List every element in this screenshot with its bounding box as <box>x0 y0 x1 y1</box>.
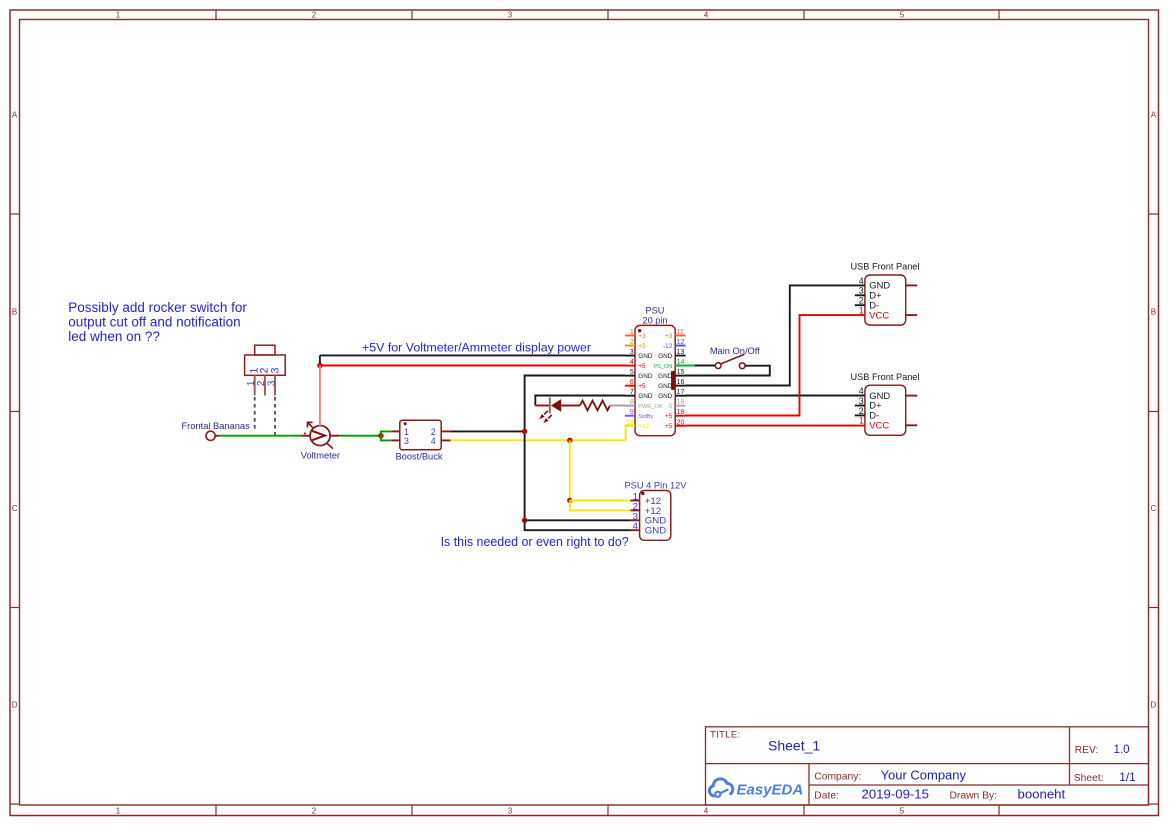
connector J1 pin numbers 1 2 3 <box>246 380 277 386</box>
svg-text:VCC: VCC <box>869 420 889 431</box>
svg-text:PSU: PSU <box>646 305 665 315</box>
wire yellow to 4pin pin2 <box>570 501 631 511</box>
P1 pin 4 +5 <box>625 359 646 370</box>
svg-text:booneht: booneht <box>1018 786 1066 801</box>
svg-text:C: C <box>12 504 18 513</box>
svg-text:9: 9 <box>630 409 634 416</box>
wire voltmeter supply (salmon) <box>319 366 321 426</box>
svg-text:TITLE:: TITLE: <box>710 730 741 741</box>
wire PSU pin17 GND to USB2 <box>686 395 865 397</box>
svg-text:4: 4 <box>633 521 639 532</box>
svg-text:4: 4 <box>704 11 709 20</box>
wire switch return to pin15 <box>686 366 770 376</box>
connector P1 no-connect bar pins 15-16 <box>671 371 675 390</box>
svg-text:1: 1 <box>859 306 864 316</box>
svg-text:2019-09-15: 2019-09-15 <box>862 786 929 801</box>
svg-text:+3: +3 <box>665 333 673 340</box>
connector J3 USB Front Panel body <box>855 385 917 435</box>
svg-text:led when on ??: led when on ?? <box>68 329 160 344</box>
svg-text:PWR_OK: PWR_OK <box>638 404 663 410</box>
svg-text:16: 16 <box>677 379 685 386</box>
label Voltmeter <box>301 451 340 461</box>
title block label REV: <box>1075 745 1098 756</box>
J3 pin names <box>869 390 890 431</box>
node junction 4pin GND <box>522 518 527 523</box>
P1 pin 3 GND <box>625 349 653 360</box>
svg-text:11: 11 <box>677 329 684 336</box>
svg-text:VCC: VCC <box>869 309 889 320</box>
svg-text:output cut off and notificatio: output cut off and notification <box>68 314 240 329</box>
P1 pin 2 +3 <box>625 339 646 350</box>
svg-text:2: 2 <box>312 11 317 20</box>
svg-text:USB Front Panel: USB Front Panel <box>851 372 920 382</box>
svg-text:3: 3 <box>266 380 277 386</box>
node junction boost pin2 <box>522 429 527 434</box>
svg-text:+5: +5 <box>638 383 646 390</box>
wire boostbuck pin4 yellow <box>451 439 626 441</box>
svg-text:20: 20 <box>677 419 685 426</box>
annotation +5V for Voltmeter/Ammeter display power <box>362 341 591 355</box>
svg-text:+5: +5 <box>665 423 673 430</box>
title block value booneht <box>1018 786 1066 801</box>
annotation Is this needed or even right to do? <box>441 535 629 549</box>
svg-text:2: 2 <box>312 806 317 815</box>
P1 pin 5 GND <box>625 369 653 380</box>
svg-text:Company:: Company: <box>814 772 861 783</box>
wire black corner at voltmeter column <box>319 355 321 365</box>
node junction at boost input <box>378 433 383 438</box>
wire yellow down <box>569 440 571 500</box>
title block label Sheet: <box>1074 773 1104 784</box>
LED D1 <box>535 397 580 423</box>
P1 pin 13 GND <box>658 349 685 360</box>
P1 pin 17 GND <box>658 389 685 400</box>
wire +5V black top <box>320 354 625 356</box>
P1 pin 1 +3 <box>625 329 646 340</box>
P1 pin 15 GND <box>658 369 685 380</box>
svg-text:7: 7 <box>630 389 634 396</box>
svg-text:C: C <box>1151 504 1157 513</box>
P1 pin 6 +5 <box>625 379 646 390</box>
connector P2 PSU 4 Pin body <box>630 491 670 541</box>
title block value 1.0 <box>1114 743 1130 756</box>
svg-text:+5: +5 <box>638 363 646 370</box>
wire yellow to 4pin pin1 <box>570 500 631 502</box>
svg-text:17: 17 <box>677 389 685 396</box>
wire PS_ON black to switch <box>695 365 716 367</box>
svg-text:3: 3 <box>859 396 864 406</box>
wire +5 red to PSU pin4 <box>320 365 625 367</box>
title block value 1/1 <box>1119 770 1135 784</box>
wire resistor to PWR_OK (gray) <box>610 405 625 407</box>
module U1 pin numbers <box>404 427 436 446</box>
J3 pin numbers <box>859 386 864 426</box>
svg-text:A: A <box>12 111 18 120</box>
label Boost/Buck <box>395 452 442 462</box>
connector J2 USB Front Panel body <box>855 275 917 325</box>
connector P1 PSU 20 pin body <box>635 325 675 435</box>
svg-text:19: 19 <box>677 409 685 416</box>
svg-text:GND: GND <box>658 353 673 360</box>
svg-text:B: B <box>1151 308 1156 317</box>
label Frontal Bananas <box>182 421 251 431</box>
svg-text:1: 1 <box>116 806 121 815</box>
svg-text:+5: +5 <box>665 413 673 420</box>
J2 pin names <box>869 280 890 321</box>
svg-text:GND: GND <box>638 393 653 400</box>
title block label Date: <box>814 791 839 802</box>
P1 pin 9 StdBy <box>625 409 654 420</box>
node junction voltmeter supply <box>317 363 322 368</box>
wire node to boostbuck pin1 (green) <box>381 431 391 435</box>
J2 title USB Front Panel <box>851 262 920 272</box>
svg-text:6: 6 <box>630 379 634 386</box>
svg-text:2: 2 <box>859 406 864 416</box>
svg-text:+3: +3 <box>638 333 646 340</box>
svg-text:PS_ON: PS_ON <box>653 364 672 370</box>
svg-text:GND: GND <box>638 353 653 360</box>
title block grid <box>706 727 1149 805</box>
connector P2 pin names <box>645 496 666 537</box>
svg-text:4: 4 <box>859 276 864 286</box>
svg-text:3: 3 <box>630 349 634 356</box>
svg-text:3: 3 <box>859 286 864 296</box>
connector banana jack <box>206 431 219 440</box>
svg-text:Date:: Date: <box>814 791 839 802</box>
svg-text:A: A <box>1151 111 1157 120</box>
svg-text:Sheet:: Sheet: <box>1074 773 1104 784</box>
svg-text:REV:: REV: <box>1075 745 1098 756</box>
svg-text:-12: -12 <box>663 343 673 350</box>
svg-text:4: 4 <box>859 386 864 396</box>
P1 pin 7 GND <box>625 389 653 400</box>
svg-text:1: 1 <box>859 416 864 426</box>
svg-text:10: 10 <box>626 419 634 426</box>
annotation note rocker switch line1 <box>68 300 247 315</box>
dashed wire pin3 <box>274 397 276 436</box>
wire branch to 4pin pin3 <box>525 519 631 521</box>
node junction yellow <box>567 438 572 443</box>
title block label Drawn By: <box>950 791 998 802</box>
resistor R1 <box>580 401 610 411</box>
P1 pin 20 +5 <box>665 419 685 430</box>
annotation note rocker switch line3 <box>68 329 160 344</box>
svg-text:EasyEDA: EasyEDA <box>737 782 804 799</box>
wire node to boostbuck pin3 (green) <box>381 436 391 441</box>
P1 pin 19 +5 <box>665 409 685 420</box>
svg-text:GND: GND <box>658 383 673 390</box>
label PSU 4 Pin 12V <box>624 481 687 491</box>
J2 pin numbers <box>859 276 864 316</box>
svg-text:3: 3 <box>508 11 513 20</box>
svg-text:+12: +12 <box>638 423 649 430</box>
label Main On/Off <box>710 346 760 356</box>
svg-text:Main On/Off: Main On/Off <box>710 346 760 356</box>
connector J1 rocker switch body <box>245 345 286 395</box>
P1 pin 8 PWR_OK <box>625 399 663 410</box>
svg-text:Is this needed or even right t: Is this needed or even right to do? <box>441 535 629 549</box>
P1 pin 12 -12 <box>663 339 685 350</box>
wire boostbuck pin2 black <box>451 430 525 432</box>
svg-text:4: 4 <box>630 359 634 366</box>
svg-text:5: 5 <box>900 11 905 20</box>
wire PSU pin20 +5 to USB2 VCC <box>686 425 865 427</box>
svg-text:1.0: 1.0 <box>1114 743 1130 756</box>
svg-text:5: 5 <box>900 806 905 815</box>
svg-text:15: 15 <box>677 369 685 376</box>
wire PSU pin16 GND to USB1 <box>686 285 865 385</box>
svg-text:13: 13 <box>677 349 685 356</box>
title block value Sheet_1 <box>768 738 820 754</box>
svg-text:5: 5 <box>630 369 634 376</box>
switch S1 Main On/Off <box>715 354 745 368</box>
svg-text:Boost/Buck: Boost/Buck <box>395 452 442 462</box>
svg-text:B: B <box>12 308 17 317</box>
module U1 Boost/Buck body <box>391 420 450 450</box>
svg-text:GND: GND <box>658 393 673 400</box>
svg-text:12: 12 <box>677 339 685 346</box>
svg-text:Your Company: Your Company <box>881 767 967 782</box>
wire PSU pin19 +5 to USB1 VCC <box>686 315 865 415</box>
svg-text:3: 3 <box>508 806 513 815</box>
frame row letters <box>12 111 1157 710</box>
J3 title USB Front Panel <box>851 372 920 382</box>
svg-text:1: 1 <box>116 11 121 20</box>
svg-text:8: 8 <box>630 399 634 406</box>
title block value Your Company <box>881 767 967 782</box>
wire voltmeter to node (green) <box>339 435 381 437</box>
svg-text:Sheet_1: Sheet_1 <box>768 738 820 754</box>
svg-text:USB Front Panel: USB Front Panel <box>851 262 920 272</box>
svg-text:GND: GND <box>658 373 673 380</box>
title block label Company: <box>814 772 861 783</box>
svg-text:StdBy: StdBy <box>638 414 653 420</box>
wire banana to voltmeter (green) <box>219 435 302 437</box>
svg-text:4: 4 <box>704 806 709 815</box>
svg-text:1/1: 1/1 <box>1119 770 1135 784</box>
svg-text:GND: GND <box>645 526 666 537</box>
svg-text:Voltmeter: Voltmeter <box>301 451 340 461</box>
svg-text:D: D <box>1151 701 1157 710</box>
title block value 2019-09-15 <box>862 786 929 801</box>
svg-text:3: 3 <box>404 436 409 446</box>
wire PSU pin5 GND down-left bus <box>525 376 631 531</box>
wire PSU pin7 GND to LED <box>535 396 625 406</box>
node junction yellow 4pin <box>567 498 572 503</box>
svg-text:20 pin: 20 pin <box>642 316 667 326</box>
P1 pin 10 +12 <box>625 419 650 430</box>
svg-text:D: D <box>12 701 18 710</box>
svg-text:-5: -5 <box>667 403 673 410</box>
svg-text:2: 2 <box>630 339 634 346</box>
P1 pin 18 -5 <box>667 399 686 410</box>
svg-text:4: 4 <box>431 436 436 446</box>
P1 pin 11 +3 <box>665 329 685 340</box>
dashed wire pin1 <box>254 397 256 430</box>
svg-text:PSU 4 Pin 12V: PSU 4 Pin 12V <box>624 481 687 491</box>
svg-text:Possibly add rocker switch for: Possibly add rocker switch for <box>68 300 247 315</box>
frame column numbers <box>116 11 905 816</box>
svg-text:+5V for Voltmeter/Ammeter disp: +5V for Voltmeter/Ammeter display power <box>362 341 591 355</box>
svg-text:Frontal Bananas: Frontal Bananas <box>182 421 251 431</box>
svg-text:Drawn By:: Drawn By: <box>950 791 998 802</box>
label PSU <box>646 305 665 315</box>
label 20 pin <box>642 316 667 326</box>
svg-text:2: 2 <box>859 296 864 306</box>
EasyEDA logo wordmark <box>737 782 804 799</box>
svg-text:3: 3 <box>269 368 281 374</box>
wire yellow up to PSU pin10 <box>626 426 635 441</box>
svg-text:18: 18 <box>677 399 685 406</box>
wire PS_ON green stub <box>675 365 695 367</box>
svg-text:GND: GND <box>638 373 653 380</box>
P1 pin 16 GND <box>658 379 685 390</box>
meter M1 voltmeter <box>301 422 339 448</box>
P1 pin 14 PS_ON <box>653 359 685 370</box>
annotation note rocker switch line2 <box>68 314 240 329</box>
connector P2 pin numbers <box>633 492 639 533</box>
svg-text:1: 1 <box>630 329 634 336</box>
title block label TITLE: <box>710 730 741 741</box>
svg-text:+3: +3 <box>638 343 646 350</box>
connector J1 pin names 1 2 3 <box>248 368 281 374</box>
EasyEDA logo cloud icon <box>709 779 732 797</box>
